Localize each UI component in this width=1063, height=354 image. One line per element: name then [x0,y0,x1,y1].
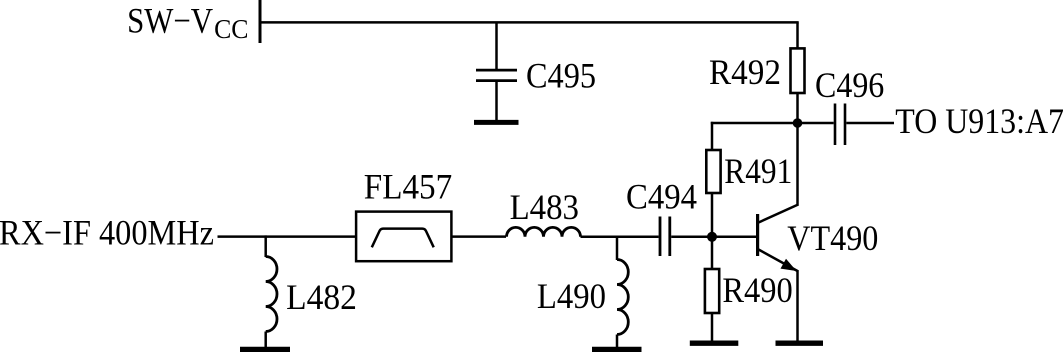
node base junction [707,232,717,242]
svg-text:R491: R491 [724,151,792,191]
wire emitter [796,270,799,343]
node collector junction [793,118,803,128]
wire L482 tap [264,235,267,257]
svg-text:CC: CC [214,14,248,44]
wire FL457 to L483 [453,235,507,238]
svg-text:C496: C496 [815,65,884,105]
ground below L482 [240,347,290,352]
ground below L490 [592,347,642,352]
svg-text:TO U913:A7: TO U913:A7 [895,101,1063,141]
wire input [218,235,357,238]
wire R490 bottom [711,313,714,343]
wire C494 to base node [671,236,712,239]
wire base [712,236,757,239]
svg-text:L483: L483 [510,187,579,227]
resistor R491 [706,150,720,193]
resistor R492 [791,48,805,93]
transistor VT490 [758,204,799,271]
wire R490 top [711,237,714,269]
wire R491 bottom [711,193,714,237]
wire node to C496 [798,122,834,125]
wire top rail [259,21,799,24]
inductor L490 [617,260,628,335]
wire L482 bottom [264,332,267,350]
capacitor C496 [835,104,845,146]
wire C496 output [846,122,894,125]
svg-text:R490: R490 [722,270,792,310]
wire R492 bottom [796,93,799,124]
ground below C495 [474,120,519,125]
inductor L483 [507,227,581,236]
svg-text:C495: C495 [526,56,596,96]
wire collector [796,123,799,205]
wire R492 top [796,22,799,48]
ground below R490 [690,341,739,346]
svg-text:SW−V: SW−V [127,1,213,41]
wire L483 to C494 [581,236,659,239]
wire L490 tap [616,236,619,260]
svg-text:L482: L482 [286,277,357,317]
wire node to R491 [711,122,798,151]
svg-text:RX−IF 400MHz: RX−IF 400MHz [0,213,214,253]
svg-text:FL457: FL457 [364,166,452,206]
power terminal SW-VCC [259,0,262,43]
inductor L482 [266,257,277,332]
svg-text:VT490: VT490 [787,218,878,258]
svg-text:R492: R492 [709,52,781,92]
ground at emitter [776,341,824,346]
wire L490 bottom [616,335,619,350]
svg-text:L490: L490 [537,276,606,316]
capacitor C494 [660,217,670,257]
svg-text:C494: C494 [626,177,697,217]
resistor R490 [705,269,719,313]
capacitor C495 [476,22,517,122]
filter FL457 [356,212,451,262]
